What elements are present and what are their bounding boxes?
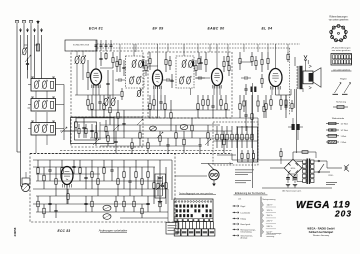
svg-text:Fellbach bei Stuttgart: Fellbach bei Stuttgart <box>309 231 334 234</box>
svg-text:220 V~: 220 V~ <box>267 221 274 223</box>
svg-text:Umschaltung: Umschaltung <box>241 230 252 233</box>
svg-text:ZF-Durchführungen: ZF-Durchführungen <box>331 47 351 50</box>
svg-text:EL 84: EL 84 <box>262 27 273 31</box>
svg-text:WEGA: WEGA <box>296 200 330 211</box>
svg-text:Band gedr.: Band gedr. <box>241 223 251 226</box>
svg-text:Änderungen vorbehalten: Änderungen vorbehalten <box>98 229 128 233</box>
svg-text:WEGA - RADIO GmbH: WEGA - RADIO GmbH <box>307 226 334 230</box>
svg-text:220V~: 220V~ <box>328 175 334 177</box>
svg-text:Tasten-Aggregat von vorn geseh: Tasten-Aggregat von vorn gesehen <box>179 192 214 195</box>
svg-text:Anzeige: Anzeige <box>241 236 248 239</box>
svg-text:ECC 83: ECC 83 <box>58 229 71 233</box>
svg-text:Regler: Regler <box>340 77 347 80</box>
svg-text:Western Germany: Western Germany <box>313 234 329 237</box>
svg-text:1/2 Watt: 1/2 Watt <box>341 123 349 126</box>
svg-text:203: 203 <box>334 209 352 219</box>
svg-text:Klang: Klang <box>241 219 247 221</box>
svg-text:B250: B250 <box>291 168 295 170</box>
svg-text:249/58: 249/58 <box>13 227 17 236</box>
svg-text:Widerstände: Widerstände <box>332 117 345 120</box>
svg-text:Erläuterung der Kurzzeichen: Erläuterung der Kurzzeichen <box>235 192 266 195</box>
svg-text:z.B.: z.B. <box>238 199 242 201</box>
svg-text:125 V~: 125 V~ <box>267 210 274 212</box>
svg-text:von unten gesehen: von unten gesehen <box>332 49 351 52</box>
svg-text:Rigel: Rigel <box>241 206 246 208</box>
svg-text:Gleichspannungs-: Gleichspannungs- <box>267 233 283 235</box>
svg-text:Röhrenfassungen: Röhrenfassungen <box>329 16 348 19</box>
svg-text:240 V~: 240 V~ <box>267 226 274 228</box>
svg-text:1 Watt: 1 Watt <box>341 135 347 138</box>
svg-text:SCHALTER 2818: SCHALTER 2818 <box>73 43 90 46</box>
svg-text:1/2 Watt: 1/2 Watt <box>341 129 349 132</box>
svg-text:von unten gesehen: von unten gesehen <box>333 68 350 71</box>
svg-text:Lautstärke: Lautstärke <box>241 212 252 215</box>
svg-text:110 V~: 110 V~ <box>267 204 274 206</box>
svg-text:messung: messung <box>267 236 275 238</box>
svg-text:EABC 80: EABC 80 <box>207 27 224 31</box>
svg-text:Sicherung: Sicherung <box>336 101 347 104</box>
svg-text:ECH 81: ECH 81 <box>89 27 103 31</box>
svg-text:150 V~: 150 V~ <box>267 215 274 217</box>
svg-text:von unten gesehen: von unten gesehen <box>329 18 349 21</box>
svg-text:Alle Spannungen gem.: Alle Spannungen gem. <box>282 190 302 193</box>
svg-text:Netzspannung: Netzspannung <box>263 198 276 201</box>
svg-text:EF 89: EF 89 <box>152 27 163 31</box>
svg-text:2 Watt: 2 Watt <box>341 141 347 144</box>
